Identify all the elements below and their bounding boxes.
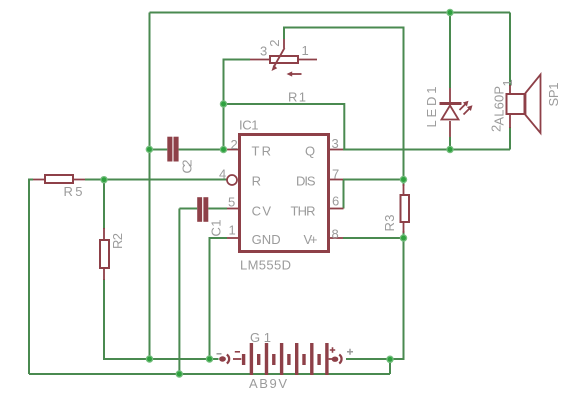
svg-text:LM555D: LM555D [240, 257, 291, 272]
node C2 left junction [146, 146, 152, 152]
svg-text:2: 2 [489, 125, 504, 132]
wire THR jog [343, 180, 345, 209]
wire speaker pin2 riser [509, 127, 511, 150]
wire pot pin2 to DIS column [284, 28, 404, 180]
svg-text:4: 4 [219, 166, 226, 181]
node GND / battery minus junction [206, 356, 212, 362]
wire C2 right to TR [179, 149, 227, 151]
svg-text:R: R [252, 174, 261, 189]
node battery plus / bottom rail junction [387, 356, 393, 362]
resistor R3 [382, 184, 409, 233]
node pot pin3 / Q junction [220, 101, 226, 107]
wire C1 left [179, 208, 197, 210]
svg-text:1: 1 [500, 79, 515, 86]
wire GND drop [210, 238, 228, 359]
node V+ / R3 bottom junction [400, 235, 406, 241]
pin 6 THR stub [291, 194, 344, 219]
svg-text:2: 2 [231, 137, 238, 152]
svg-text:C2: C2 [179, 160, 194, 174]
LED1 [424, 87, 472, 138]
battery plates [242, 354, 245, 365]
pin 5 CV stub [227, 195, 271, 219]
wire CV to C1 [208, 208, 227, 210]
svg-text:CV: CV [252, 204, 272, 219]
svg-text:R3: R3 [382, 215, 397, 232]
wire Q up and over [224, 104, 345, 150]
pin 2 TR stub [227, 137, 271, 158]
wire left tall vertical [149, 13, 151, 360]
wire battery plus jog to bottom rail [389, 359, 391, 374]
svg-text:GND: GND [252, 232, 281, 247]
wire R3 column [403, 180, 405, 239]
svg-text:5: 5 [228, 195, 235, 210]
svg-text:6: 6 [332, 194, 339, 209]
svg-text:R1: R1 [288, 90, 306, 105]
node R5 / R2 / R pin junction [101, 177, 107, 183]
wire bottom rail [29, 373, 390, 375]
wire LED top drop [449, 13, 451, 89]
wire speaker pin1 drop [509, 13, 511, 87]
svg-text:DIS: DIS [296, 174, 316, 189]
pin 8 V+ stub [304, 226, 344, 247]
wire C2 left [150, 149, 168, 151]
svg-text:THR: THR [291, 204, 316, 219]
potentiometer R1 [250, 39, 317, 105]
capacitor C2 [167, 137, 194, 174]
IC IC1 LM555D body [239, 118, 329, 273]
wire R2 bottom to battery minus [104, 279, 219, 359]
wire V+ down to battery plus [346, 238, 404, 359]
pin 4 R inversion bubble [219, 166, 261, 188]
svg-text:AL60P: AL60P [492, 86, 507, 126]
svg-text:1: 1 [302, 43, 309, 58]
svg-text:8: 8 [332, 226, 339, 241]
svg-text:7: 7 [332, 167, 339, 182]
wire R5 left corner [29, 180, 33, 375]
svg-text:TR: TR [252, 143, 272, 158]
battery G1 AB9V [217, 330, 354, 391]
node top rail / LED junction [447, 9, 453, 15]
node DIS / R3 top junction [400, 176, 406, 182]
resistor R5 [33, 175, 85, 199]
speaker SP1 [489, 75, 562, 134]
svg-text:3: 3 [332, 136, 339, 151]
battery right clip [329, 358, 332, 360]
wire pot pin3 to TR column [224, 60, 251, 150]
svg-text:R2: R2 [110, 233, 125, 249]
pin 3 Q stub [305, 136, 343, 158]
svg-text:IC1: IC1 [239, 118, 259, 133]
wire R5 right to R pin [85, 179, 227, 181]
wire LED bottom [449, 137, 451, 150]
wire DIS row [343, 179, 404, 181]
capacitor C1 [197, 197, 223, 236]
node C2 right / TR junction [220, 146, 226, 152]
node C1 left / bottom rail junction [176, 371, 182, 377]
wire top rail [150, 12, 511, 14]
node battery minus / left vertical junction [146, 356, 152, 362]
node LED bottom / Q row junction [447, 146, 453, 152]
svg-text:C1: C1 [209, 220, 224, 237]
svg-text:V+: V+ [304, 232, 318, 247]
wire V+ row [343, 237, 404, 239]
svg-text:2: 2 [267, 40, 282, 47]
svg-text:SP1: SP1 [546, 83, 561, 107]
wire C1 left drop to bottom rail [178, 209, 180, 375]
wire R2 top [103, 180, 105, 230]
battery left clip [219, 356, 226, 361]
svg-text:Q: Q [305, 143, 315, 158]
wire Q row right [344, 149, 510, 151]
pin 7 DIS stub [296, 167, 343, 189]
resistor R2 [100, 228, 125, 280]
pin 1 GND stub [227, 223, 281, 248]
svg-text:1: 1 [229, 223, 236, 238]
